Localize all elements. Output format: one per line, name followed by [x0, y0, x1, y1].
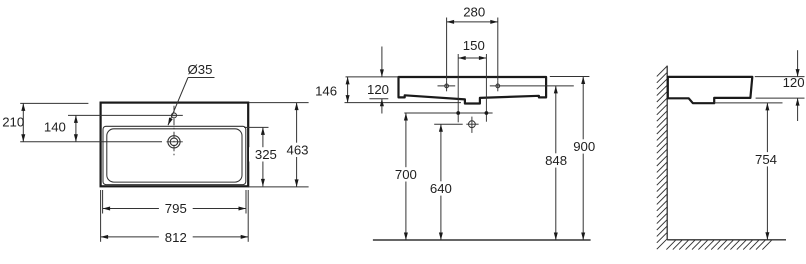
svg-text:640: 640: [430, 181, 452, 196]
svg-text:848: 848: [545, 153, 567, 168]
svg-text:325: 325: [255, 147, 277, 162]
svg-text:754: 754: [755, 152, 777, 167]
svg-text:120: 120: [367, 82, 389, 97]
svg-text:795: 795: [165, 201, 187, 216]
svg-text:140: 140: [44, 119, 66, 134]
svg-text:210: 210: [2, 114, 24, 129]
svg-text:280: 280: [463, 5, 485, 20]
svg-text:146: 146: [315, 83, 337, 98]
svg-text:700: 700: [395, 167, 417, 182]
svg-text:150: 150: [463, 38, 485, 53]
svg-text:812: 812: [165, 230, 187, 245]
svg-text:463: 463: [286, 142, 308, 157]
svg-text:900: 900: [573, 139, 595, 154]
svg-text:120: 120: [783, 75, 805, 90]
svg-text:Ø35: Ø35: [188, 62, 213, 77]
